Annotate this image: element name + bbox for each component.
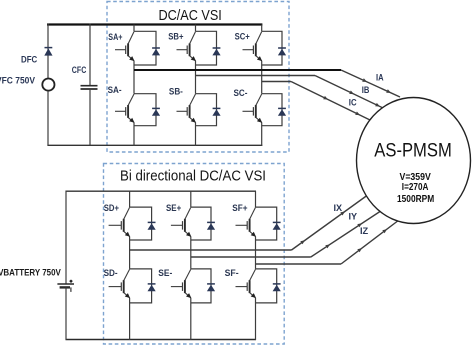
diode freewheel D of SE- bbox=[207, 284, 215, 291]
wire: SB+ diode branch loop bbox=[196, 31, 217, 65]
wire: leg E bottom segment (SE- emitter to DC- rail) bbox=[190, 298, 192, 340]
label SB- bbox=[169, 87, 183, 97]
wire: leg D mid segment (SD+ emitter to SD- collector node) bbox=[129, 237, 131, 269]
dashed enclosure: Bi directional DC/AC VSI box bbox=[104, 164, 285, 345]
svg-text:1500RPM: 1500RPM bbox=[397, 193, 434, 205]
wire IB (phase B to motor) bbox=[196, 76, 384, 109]
wire: SA- diode branch loop bbox=[134, 94, 156, 126]
diode freewheel D of SC+ bbox=[278, 48, 286, 55]
wire: leg B top segment (rail to SB+ collector node) bbox=[195, 25, 197, 32]
motor AS-PMSM bbox=[357, 98, 471, 224]
svg-text:SC-: SC- bbox=[234, 88, 248, 98]
wire: CFC branch lower bbox=[89, 89, 91, 145]
source VFC 750V bbox=[42, 79, 54, 91]
svg-text:IX: IX bbox=[334, 203, 343, 213]
transistor SB+ (IGBT) bbox=[177, 32, 197, 61]
label CFC bbox=[72, 65, 87, 76]
svg-text:SF+: SF+ bbox=[232, 203, 247, 213]
wire: SD- diode branch loop bbox=[130, 269, 152, 303]
wire: leg D top segment (rail to SD+ collector node) bbox=[129, 191, 131, 207]
svg-text:SD+: SD+ bbox=[104, 203, 119, 213]
label AS-PMSM bbox=[374, 141, 452, 162]
label IZ bbox=[360, 226, 369, 236]
wire: VFC source branch lower bbox=[47, 91, 49, 146]
diode freewheel D of SC- bbox=[278, 108, 286, 115]
capacitor CFC bbox=[81, 86, 98, 89]
svg-text:VFC 750V: VFC 750V bbox=[0, 75, 36, 86]
diode freewheel D of SF+ bbox=[273, 222, 281, 229]
wire: leg B bottom segment (SB- emitter to DC- rail) bbox=[195, 122, 197, 145]
svg-text:SA+: SA+ bbox=[108, 32, 122, 42]
wire: leg B mid segment (SB+ emitter to SB- collector node) bbox=[195, 61, 197, 94]
svg-text:SF-: SF- bbox=[225, 268, 239, 278]
transistor SC- (IGBT) bbox=[243, 94, 263, 123]
diode DFC bbox=[44, 48, 52, 56]
wire: top inverter DC+ rail bbox=[47, 23, 262, 25]
svg-text:AS-PMSM: AS-PMSM bbox=[374, 141, 452, 162]
svg-text:DC/AC VSI: DC/AC VSI bbox=[159, 8, 222, 24]
svg-text:SE+: SE+ bbox=[166, 203, 181, 213]
transistor SE+ (IGBT) bbox=[171, 207, 191, 236]
wire: SF- diode branch loop bbox=[256, 269, 277, 303]
label SD+ bbox=[104, 203, 119, 213]
transistor SD- (IGBT) bbox=[109, 269, 131, 298]
diode freewheel D of SB+ bbox=[212, 48, 220, 55]
wire: leg C bottom segment (SC- emitter to DC- rail) bbox=[261, 122, 263, 145]
label DFC bbox=[21, 54, 37, 65]
wire: bottom inverter DC- rail bbox=[66, 339, 257, 341]
wire: SC+ diode branch loop bbox=[262, 31, 282, 65]
wire: SE- diode branch loop bbox=[191, 269, 211, 303]
label IB bbox=[362, 85, 370, 95]
diode freewheel D of SB- bbox=[212, 108, 220, 115]
transistor SF- (IGBT) bbox=[236, 269, 257, 298]
label SE+ bbox=[166, 203, 181, 213]
label SD- bbox=[104, 268, 118, 278]
transistor SF+ (IGBT) bbox=[236, 207, 257, 236]
wire: battery branch lower bbox=[65, 287, 67, 340]
diode freewheel D of SD+ bbox=[148, 222, 156, 229]
svg-text:SE-: SE- bbox=[158, 268, 172, 278]
label V=359V bbox=[400, 171, 431, 183]
wire IY (phase Y to motor) bbox=[191, 212, 380, 258]
wire: SD+ diode branch loop bbox=[130, 207, 152, 240]
label SB+ bbox=[168, 32, 183, 42]
label SF+ bbox=[232, 203, 247, 213]
label IA bbox=[376, 72, 384, 82]
wire: leg A mid segment (SA+ emitter to SA- collector node) bbox=[133, 61, 135, 94]
svg-text:IY: IY bbox=[349, 212, 358, 222]
dashed enclosure: DC/AC VSI box bbox=[107, 2, 289, 153]
svg-text:SA-: SA- bbox=[108, 85, 122, 95]
wire: leg A bottom segment (SA- emitter to DC- rail) bbox=[133, 122, 135, 145]
wire: bottom inverter DC+ rail bbox=[66, 190, 257, 192]
label SA- bbox=[108, 85, 122, 95]
svg-text:SB-: SB- bbox=[169, 87, 183, 97]
wire IC (phase C to motor) bbox=[262, 82, 370, 121]
label SF- bbox=[225, 268, 239, 278]
transistor SA+ (IGBT) bbox=[115, 32, 135, 61]
svg-text:IA: IA bbox=[376, 72, 384, 82]
diode freewheel D of SF- bbox=[273, 284, 281, 291]
svg-text:CFC: CFC bbox=[72, 65, 87, 76]
wire: leg F mid segment (SF+ emitter to SF- collector node) bbox=[255, 237, 257, 269]
svg-text:SB+: SB+ bbox=[168, 32, 183, 42]
wire IX (phase X to motor) bbox=[130, 196, 367, 251]
wire IA (phase A to motor) bbox=[134, 70, 400, 97]
wire: top inverter DC- rail bbox=[47, 144, 262, 146]
label IX bbox=[334, 203, 343, 213]
wire: SF+ diode branch loop bbox=[256, 207, 277, 240]
title: Bi directional DC/AC VSI bbox=[120, 168, 266, 184]
diode freewheel D of SD- bbox=[148, 284, 156, 291]
wire: CFC branch upper bbox=[89, 24, 91, 86]
label SC+ bbox=[235, 32, 250, 42]
wire: SB- diode branch loop bbox=[196, 94, 217, 126]
wire: leg E top segment (rail to SE+ collector node) bbox=[190, 191, 192, 207]
svg-text:I=270A: I=270A bbox=[402, 181, 429, 193]
wire: SC- diode branch loop bbox=[262, 94, 282, 126]
transistor SA- (IGBT) bbox=[115, 94, 135, 123]
wire: leg A top segment (rail to SA+ collector node) bbox=[133, 25, 135, 32]
transistor SE- (IGBT) bbox=[171, 269, 191, 298]
wire: leg E mid segment (SE+ emitter to SE- collector node) bbox=[190, 237, 192, 269]
diode freewheel D of SA+ bbox=[152, 48, 160, 55]
wire: VFC source branch upper bbox=[47, 24, 49, 79]
label EVBATTERY 750V bbox=[0, 267, 61, 278]
label IC bbox=[349, 98, 357, 108]
wire: leg C mid segment (SC+ emitter to SC- collector node) bbox=[261, 61, 263, 94]
wire: leg D bottom segment (SD- emitter to DC- rail) bbox=[129, 298, 131, 340]
wire: battery branch upper bbox=[65, 191, 67, 285]
transistor SC+ (IGBT) bbox=[243, 32, 263, 61]
diode freewheel D of SE+ bbox=[207, 222, 215, 229]
transistor SB- (IGBT) bbox=[177, 94, 197, 123]
wire IZ (phase Z to motor) bbox=[256, 220, 400, 264]
wire: leg F bottom segment (SF- emitter to DC- rail) bbox=[255, 298, 257, 340]
svg-text:SD-: SD- bbox=[104, 268, 118, 278]
title: DC/AC VSI bbox=[159, 8, 222, 24]
label SA+ bbox=[108, 32, 122, 42]
svg-text:Bi directional DC/AC VSI: Bi directional DC/AC VSI bbox=[120, 168, 266, 184]
svg-text:DFC: DFC bbox=[21, 54, 37, 65]
label 1500RPM bbox=[397, 193, 434, 205]
svg-text:EVBATTERY 750V: EVBATTERY 750V bbox=[0, 267, 61, 278]
label SC- bbox=[234, 88, 248, 98]
wire: SE+ diode branch loop bbox=[191, 207, 211, 240]
wire: SA+ diode branch loop bbox=[134, 31, 156, 65]
label SE- bbox=[158, 268, 172, 278]
svg-text:IB: IB bbox=[362, 85, 370, 95]
transistor SD+ (IGBT) bbox=[109, 207, 131, 236]
diode freewheel D of SA- bbox=[152, 108, 160, 115]
label I=270A bbox=[402, 181, 429, 193]
label VFC 750V bbox=[0, 75, 36, 86]
wire: leg F top segment (rail to SF+ collector node) bbox=[255, 191, 257, 207]
svg-text:SC+: SC+ bbox=[235, 32, 250, 42]
wire: leg C top segment (rail to SC+ collector node) bbox=[261, 25, 263, 32]
battery EVBATTERY 750V bbox=[57, 280, 74, 292]
svg-text:IZ: IZ bbox=[360, 226, 369, 236]
svg-text:IC: IC bbox=[349, 98, 357, 108]
label IY bbox=[349, 212, 358, 222]
